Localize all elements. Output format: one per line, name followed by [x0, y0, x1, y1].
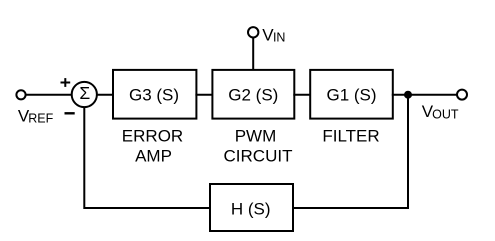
wire summing junction to H (feedback left) — [84, 107, 211, 208]
summing junction — [72, 82, 97, 107]
block G3 — [113, 70, 196, 119]
label PWM CIRCUIT — [224, 126, 293, 165]
svg-text:VOUT: VOUT — [422, 102, 459, 122]
wire summing junction to G3 — [97, 94, 114, 96]
terminal VOUT — [457, 90, 467, 100]
svg-text:G2 (S): G2 (S) — [228, 86, 278, 105]
block G2 — [212, 70, 294, 119]
wire G1 to VOUT terminal — [392, 94, 457, 96]
wire G2 to G1 — [293, 94, 311, 96]
wire junction to H (feedback right) — [292, 95, 408, 208]
svg-text:G3 (S): G3 (S) — [129, 86, 179, 105]
junction node — [404, 91, 412, 99]
svg-text:PWM: PWM — [235, 126, 277, 145]
svg-text:VREF: VREF — [18, 106, 54, 125]
label ERROR AMP — [122, 126, 183, 165]
svg-text:AMP: AMP — [135, 147, 172, 166]
minus sign — [65, 112, 75, 114]
terminal VIN — [248, 27, 258, 37]
svg-text:H (S): H (S) — [231, 200, 271, 219]
svg-text:G1 (S): G1 (S) — [326, 86, 376, 105]
wire VREF to summing junction — [26, 94, 72, 96]
svg-text:FILTER: FILTER — [322, 126, 379, 145]
block G1 — [310, 70, 393, 119]
wire VIN to G2 — [252, 38, 254, 70]
svg-text:CIRCUIT: CIRCUIT — [224, 147, 293, 166]
svg-text:ERROR: ERROR — [122, 126, 183, 145]
block H — [210, 184, 293, 231]
wire G3 to G2 — [195, 94, 213, 96]
svg-text:Σ: Σ — [79, 83, 90, 103]
terminal VREF — [16, 90, 25, 99]
plus sign — [61, 78, 71, 87]
svg-text:VIN: VIN — [262, 25, 285, 44]
